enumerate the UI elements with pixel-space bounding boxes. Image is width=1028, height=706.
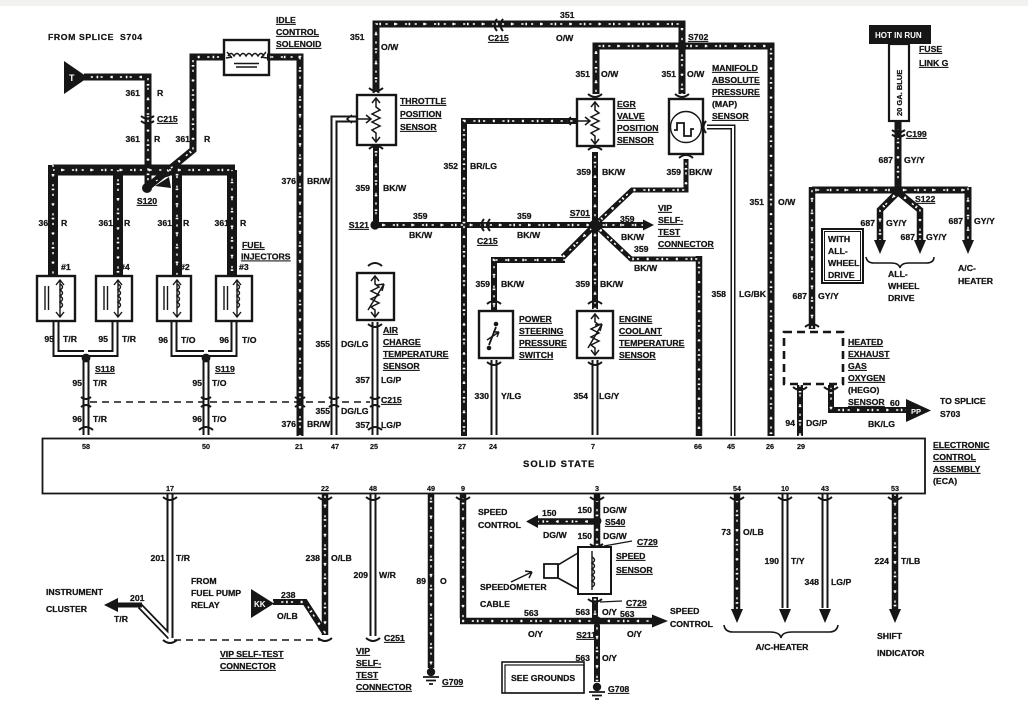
svg-text:S540: S540	[605, 517, 625, 527]
svg-text:S118: S118	[95, 364, 115, 374]
svg-text:355: 355	[316, 339, 331, 349]
svg-text:CONNECTOR: CONNECTOR	[658, 239, 715, 249]
svg-text:BK/W: BK/W	[517, 230, 541, 240]
svg-text:(ECA): (ECA)	[933, 476, 957, 486]
svg-text:359: 359	[356, 183, 371, 193]
svg-text:STEERING: STEERING	[519, 326, 564, 336]
svg-text:DG/W: DG/W	[543, 530, 567, 540]
svg-text:SENSOR: SENSOR	[848, 397, 885, 407]
svg-text:SENSOR: SENSOR	[619, 350, 656, 360]
svg-text:224: 224	[875, 556, 890, 566]
svg-text:150: 150	[578, 531, 593, 541]
svg-text:LG/BK: LG/BK	[739, 289, 767, 299]
svg-text:DRIVE: DRIVE	[828, 270, 855, 280]
svg-text:47: 47	[331, 442, 339, 451]
svg-text:351: 351	[576, 69, 591, 79]
svg-text:BK/W: BK/W	[600, 279, 624, 289]
svg-text:ABSOLUTE: ABSOLUTE	[712, 75, 760, 85]
svg-text:INJECTORS: INJECTORS	[241, 252, 291, 262]
svg-text:DG/P: DG/P	[806, 418, 827, 428]
svg-text:SENSOR: SENSOR	[383, 361, 420, 371]
svg-text:WHEEL: WHEEL	[828, 258, 860, 268]
svg-text:T: T	[69, 73, 75, 83]
svg-text:SHIFT: SHIFT	[877, 631, 903, 641]
svg-text:A/C-: A/C-	[958, 263, 976, 273]
svg-text:O/LB: O/LB	[331, 553, 352, 563]
svg-text:89: 89	[416, 576, 426, 586]
svg-text:95: 95	[192, 378, 202, 388]
svg-text:FROM SPLICE S704: FROM SPLICE S704	[48, 32, 143, 42]
svg-text:CONNECTOR: CONNECTOR	[220, 661, 277, 671]
svg-text:CONTROL: CONTROL	[670, 619, 714, 629]
svg-text:351: 351	[350, 32, 365, 42]
svg-text:CHARGE: CHARGE	[383, 337, 421, 347]
svg-text:SPEEDOMETER: SPEEDOMETER	[480, 582, 547, 592]
svg-text:563: 563	[524, 608, 539, 618]
svg-text:7: 7	[591, 442, 595, 451]
svg-text:THROTTLE: THROTTLE	[400, 96, 447, 106]
svg-text:C251: C251	[384, 633, 405, 643]
svg-text:WHEEL: WHEEL	[888, 281, 920, 291]
svg-text:S703: S703	[940, 409, 960, 419]
svg-text:24: 24	[489, 442, 497, 451]
svg-text:58: 58	[82, 442, 90, 451]
svg-text:BK/W: BK/W	[409, 230, 433, 240]
svg-text:O/LB: O/LB	[277, 611, 298, 621]
svg-text:T/R: T/R	[114, 614, 129, 624]
svg-text:TEST: TEST	[658, 227, 681, 237]
svg-text:#1: #1	[61, 262, 71, 272]
svg-text:SENSOR: SENSOR	[400, 122, 437, 132]
svg-text:GY/Y: GY/Y	[926, 232, 947, 242]
svg-text:95: 95	[98, 334, 108, 344]
svg-text:DG/W: DG/W	[603, 505, 627, 515]
svg-text:355: 355	[316, 406, 331, 416]
svg-text:BR/W: BR/W	[307, 176, 331, 186]
svg-text:27: 27	[458, 442, 466, 451]
svg-text:FROM: FROM	[191, 576, 217, 586]
svg-text:C729: C729	[626, 598, 647, 608]
svg-text:190: 190	[765, 556, 780, 566]
svg-text:563: 563	[620, 609, 635, 619]
svg-text:201: 201	[130, 593, 145, 603]
svg-text:238: 238	[306, 553, 321, 563]
svg-text:#4: #4	[120, 262, 130, 272]
svg-text:351: 351	[560, 10, 575, 20]
svg-text:60: 60	[890, 398, 900, 408]
svg-text:R: R	[204, 134, 211, 144]
svg-text:26: 26	[766, 442, 774, 451]
svg-text:563: 563	[576, 653, 591, 663]
svg-text:ALL-: ALL-	[888, 269, 908, 279]
svg-text:SOLID STATE: SOLID STATE	[523, 459, 595, 470]
svg-text:17: 17	[166, 484, 174, 493]
svg-text:MANIFOLD: MANIFOLD	[712, 63, 758, 73]
svg-text:C215: C215	[477, 236, 498, 246]
svg-text:687: 687	[879, 155, 894, 165]
svg-text:T/O: T/O	[181, 335, 196, 345]
svg-text:ELECTRONIC: ELECTRONIC	[933, 440, 990, 450]
svg-text:INDICATOR: INDICATOR	[877, 648, 925, 658]
svg-text:O/Y: O/Y	[602, 653, 617, 663]
svg-text:R: R	[240, 218, 247, 228]
svg-text:S119: S119	[215, 364, 235, 374]
svg-text:BK/W: BK/W	[689, 167, 713, 177]
svg-text:VALVE: VALVE	[617, 111, 645, 121]
svg-text:EXHAUST: EXHAUST	[848, 349, 890, 359]
svg-text:#2: #2	[180, 262, 190, 272]
svg-text:361: 361	[176, 134, 191, 144]
svg-text:TEST: TEST	[356, 670, 379, 680]
svg-text:SOLENOID: SOLENOID	[276, 39, 321, 49]
svg-text:T/O: T/O	[212, 414, 227, 424]
svg-text:376: 376	[282, 176, 297, 186]
svg-text:T/R: T/R	[93, 414, 108, 424]
svg-text:BK/W: BK/W	[501, 279, 525, 289]
svg-text:CONTROL: CONTROL	[276, 27, 320, 37]
svg-text:357: 357	[356, 375, 371, 385]
svg-text:376: 376	[282, 419, 297, 429]
svg-text:BK/LG: BK/LG	[868, 419, 895, 429]
svg-text:VIP: VIP	[658, 203, 672, 213]
svg-text:357: 357	[356, 420, 371, 430]
svg-text:330: 330	[475, 391, 490, 401]
svg-text:W/R: W/R	[379, 570, 397, 580]
svg-text:95: 95	[44, 334, 54, 344]
svg-text:359: 359	[667, 167, 682, 177]
svg-text:9: 9	[461, 484, 465, 493]
svg-text:22: 22	[321, 484, 329, 493]
svg-text:AIR: AIR	[383, 325, 399, 335]
svg-text:RELAY: RELAY	[191, 600, 220, 610]
svg-text:687: 687	[793, 291, 808, 301]
svg-text:T/R: T/R	[122, 334, 137, 344]
svg-text:O/W: O/W	[556, 33, 574, 43]
svg-text:POWER: POWER	[519, 314, 553, 324]
svg-text:SWITCH: SWITCH	[519, 350, 553, 360]
svg-text:CONNECTOR: CONNECTOR	[356, 682, 413, 692]
svg-text:CABLE: CABLE	[480, 599, 510, 609]
svg-text:T/LB: T/LB	[901, 556, 920, 566]
svg-text:49: 49	[427, 484, 435, 493]
svg-text:GAS: GAS	[848, 361, 867, 371]
svg-text:LG/P: LG/P	[381, 420, 401, 430]
svg-text:95: 95	[72, 378, 82, 388]
svg-text:BK/W: BK/W	[621, 232, 645, 242]
svg-text:DG/W: DG/W	[603, 531, 627, 541]
svg-text:KK: KK	[254, 600, 266, 609]
svg-text:PRESSURE: PRESSURE	[712, 87, 760, 97]
svg-text:FUEL PUMP: FUEL PUMP	[191, 588, 241, 598]
svg-text:FUEL: FUEL	[242, 240, 265, 250]
svg-text:150: 150	[578, 505, 593, 515]
svg-text:G708: G708	[608, 684, 629, 694]
svg-text:C215: C215	[488, 33, 509, 43]
svg-text:361: 361	[126, 88, 141, 98]
svg-text:351: 351	[662, 69, 677, 79]
svg-text:T/O: T/O	[212, 378, 227, 388]
svg-text:201: 201	[151, 553, 166, 563]
svg-text:S120: S120	[137, 196, 157, 206]
svg-text:FUSE: FUSE	[919, 44, 942, 54]
svg-text:PP: PP	[911, 407, 921, 416]
svg-text:CONTROL: CONTROL	[933, 452, 977, 462]
svg-text:O/W: O/W	[687, 69, 705, 79]
svg-text:359: 359	[413, 211, 428, 221]
svg-text:GY/Y: GY/Y	[904, 155, 925, 165]
svg-text:96: 96	[192, 414, 202, 424]
svg-text:O/W: O/W	[601, 69, 619, 79]
svg-text:687: 687	[861, 218, 876, 228]
svg-text:O/Y: O/Y	[602, 607, 617, 617]
svg-text:SENSOR: SENSOR	[712, 111, 749, 121]
svg-text:PRESSURE: PRESSURE	[519, 338, 567, 348]
svg-text:S702: S702	[688, 32, 708, 42]
svg-text:TEMPERATURE: TEMPERATURE	[619, 338, 685, 348]
svg-text:C729: C729	[637, 537, 658, 547]
svg-text:POSITION: POSITION	[617, 123, 659, 133]
svg-text:50: 50	[202, 442, 210, 451]
svg-text:73: 73	[721, 527, 731, 537]
svg-text:O/Y: O/Y	[627, 629, 642, 639]
svg-text:HEATED: HEATED	[848, 337, 883, 347]
svg-text:DG/LG: DG/LG	[341, 406, 369, 416]
svg-text:687: 687	[901, 232, 916, 242]
svg-text:S121: S121	[349, 220, 369, 230]
svg-text:361: 361	[215, 218, 230, 228]
svg-text:A/C-HEATER: A/C-HEATER	[756, 642, 810, 652]
svg-text:C215: C215	[381, 395, 402, 405]
svg-text:SELF-: SELF-	[356, 658, 381, 668]
svg-text:T/R: T/R	[93, 378, 108, 388]
svg-text:(HEGO): (HEGO)	[848, 385, 879, 395]
svg-text:R: R	[183, 218, 190, 228]
svg-text:358: 358	[712, 289, 727, 299]
svg-text:S211: S211	[576, 630, 596, 640]
svg-text:VIP SELF-TEST: VIP SELF-TEST	[220, 649, 284, 659]
svg-text:EGR: EGR	[617, 99, 637, 109]
svg-text:Y/LG: Y/LG	[501, 391, 522, 401]
svg-text:WITH: WITH	[828, 234, 850, 244]
svg-text:DG/LG: DG/LG	[341, 339, 369, 349]
svg-text:209: 209	[354, 570, 369, 580]
svg-text:G709: G709	[442, 677, 463, 687]
svg-text:CLUSTER: CLUSTER	[46, 604, 88, 614]
svg-text:359: 359	[577, 167, 592, 177]
svg-text:ALL-: ALL-	[828, 246, 848, 256]
svg-text:3: 3	[595, 484, 599, 493]
svg-text:94: 94	[785, 418, 795, 428]
svg-text:96: 96	[72, 414, 82, 424]
svg-text:VIP: VIP	[356, 646, 370, 656]
svg-text:SPEED: SPEED	[616, 551, 645, 561]
svg-text:SENSOR: SENSOR	[617, 135, 654, 145]
svg-text:T/R: T/R	[176, 553, 191, 563]
svg-text:#3: #3	[239, 262, 249, 272]
svg-text:LINK G: LINK G	[919, 58, 949, 68]
svg-text:T/R: T/R	[63, 334, 78, 344]
svg-text:T/O: T/O	[242, 335, 257, 345]
svg-text:361: 361	[39, 218, 54, 228]
svg-text:348: 348	[805, 577, 820, 587]
svg-text:351: 351	[750, 197, 765, 207]
svg-text:GY/Y: GY/Y	[818, 291, 839, 301]
svg-text:R: R	[157, 88, 164, 98]
svg-text:SEE GROUNDS: SEE GROUNDS	[511, 673, 575, 683]
svg-text:53: 53	[891, 484, 899, 493]
svg-text:SPEED: SPEED	[670, 606, 699, 616]
svg-text:ASSEMBLY: ASSEMBLY	[933, 464, 981, 474]
svg-text:C199: C199	[906, 129, 927, 139]
svg-text:O/W: O/W	[381, 42, 399, 52]
svg-text:29: 29	[797, 442, 805, 451]
svg-text:687: 687	[949, 216, 964, 226]
svg-text:66: 66	[694, 442, 702, 451]
svg-text:LG/P: LG/P	[831, 577, 851, 587]
svg-text:INSTRUMENT: INSTRUMENT	[46, 587, 104, 597]
svg-text:BK/W: BK/W	[383, 183, 407, 193]
svg-text:(MAP): (MAP)	[712, 99, 737, 109]
svg-text:96: 96	[158, 335, 168, 345]
svg-text:O/Y: O/Y	[528, 629, 543, 639]
svg-text:TO SPLICE: TO SPLICE	[940, 396, 986, 406]
svg-text:43: 43	[821, 484, 829, 493]
svg-text:GY/Y: GY/Y	[974, 216, 995, 226]
svg-text:359: 359	[517, 211, 532, 221]
svg-text:R: R	[124, 218, 131, 228]
svg-text:HOT IN RUN: HOT IN RUN	[875, 31, 922, 40]
svg-text:DRIVE: DRIVE	[888, 293, 915, 303]
svg-text:GY/Y: GY/Y	[886, 218, 907, 228]
svg-text:CONTROL: CONTROL	[478, 520, 522, 530]
svg-text:POSITION: POSITION	[400, 109, 442, 119]
svg-text:96: 96	[219, 335, 229, 345]
svg-text:359: 359	[634, 244, 649, 254]
svg-text:COOLANT: COOLANT	[619, 326, 663, 336]
svg-text:SENSOR: SENSOR	[616, 565, 653, 575]
svg-text:O: O	[440, 576, 447, 586]
svg-text:LG/Y: LG/Y	[599, 391, 619, 401]
svg-text:TEMPERATURE: TEMPERATURE	[383, 349, 449, 359]
svg-text:OXYGEN: OXYGEN	[848, 373, 885, 383]
svg-text:359: 359	[620, 214, 635, 224]
svg-text:352: 352	[444, 161, 459, 171]
svg-text:BK/W: BK/W	[602, 167, 626, 177]
svg-text:SELF-: SELF-	[658, 215, 683, 225]
svg-text:O/LB: O/LB	[743, 527, 764, 537]
svg-text:R: R	[61, 218, 68, 228]
svg-text:359: 359	[576, 279, 591, 289]
svg-text:BR/LG: BR/LG	[470, 161, 497, 171]
svg-text:S122: S122	[915, 194, 935, 204]
svg-text:C215: C215	[157, 114, 178, 124]
svg-text:SPEED: SPEED	[478, 507, 507, 517]
svg-text:BK/W: BK/W	[634, 263, 658, 273]
svg-text:359: 359	[476, 279, 491, 289]
svg-text:IDLE: IDLE	[276, 15, 296, 25]
svg-text:563: 563	[576, 607, 591, 617]
svg-text:361: 361	[99, 218, 114, 228]
svg-text:20 GA. BLUE: 20 GA. BLUE	[895, 70, 904, 116]
svg-text:54: 54	[733, 484, 741, 493]
svg-text:T/Y: T/Y	[791, 556, 805, 566]
svg-text:361: 361	[126, 134, 141, 144]
svg-text:45: 45	[727, 442, 735, 451]
svg-text:HEATER: HEATER	[958, 276, 994, 286]
svg-text:48: 48	[369, 484, 377, 493]
svg-text:LG/P: LG/P	[381, 375, 401, 385]
svg-text:S701: S701	[570, 208, 590, 218]
svg-text:O/W: O/W	[778, 197, 796, 207]
svg-text:R: R	[154, 134, 161, 144]
svg-text:25: 25	[370, 442, 378, 451]
svg-text:ENGINE: ENGINE	[619, 314, 653, 324]
svg-text:354: 354	[574, 391, 589, 401]
svg-text:150: 150	[542, 508, 557, 518]
svg-text:BR/W: BR/W	[307, 419, 331, 429]
svg-text:238: 238	[281, 590, 296, 600]
svg-text:10: 10	[781, 484, 789, 493]
svg-text:21: 21	[295, 442, 303, 451]
svg-text:361: 361	[158, 218, 173, 228]
